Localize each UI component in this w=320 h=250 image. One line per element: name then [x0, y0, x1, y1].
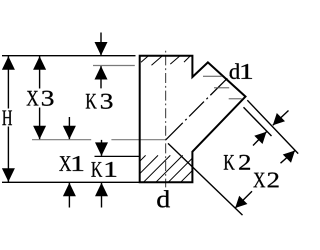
label X1: [59, 156, 83, 171]
label X2: [253, 173, 278, 188]
bottom hatch 3: [143, 155, 170, 182]
top hatch s2: [152, 56, 163, 65]
arrow K2 upper: [273, 113, 285, 125]
mouth tick t3: [229, 98, 242, 100]
dimension K3 lines: [100, 33, 102, 89]
K1 reference line: [95, 155, 141, 157]
mouth tick t2: [214, 87, 229, 89]
label K3: [86, 94, 113, 109]
arrow X2 lower: [235, 196, 247, 208]
bottom hatch 2: [140, 155, 158, 173]
bottom hatch 5: [168, 158, 192, 182]
extension line P1 rim: [247, 100, 298, 153]
mouth tick t1: [203, 75, 222, 77]
arrow X1 top: [63, 126, 76, 140]
arrow K1 bottom: [95, 183, 108, 197]
dimension K1 lines: [101, 140, 103, 208]
bottom hatch 6: [181, 171, 193, 183]
top hatch s3: [170, 56, 180, 64]
arrow H bottom: [2, 168, 15, 182]
arrow X2 upper: [283, 151, 295, 163]
arrow X3 bottom: [33, 126, 46, 140]
dimension X2 line: [235, 151, 295, 209]
gray K3 reference line: [93, 65, 135, 67]
arrow H top: [2, 56, 15, 69]
label d: [157, 190, 170, 207]
label d1: [230, 63, 252, 79]
bottom hatch 4: [156, 155, 183, 182]
arrow K2 lower: [254, 132, 266, 144]
extension line B center: [168, 143, 243, 215]
top reference line: [2, 55, 136, 57]
bottom hatch 1: [140, 155, 146, 161]
dimension H line: [7, 56, 9, 183]
main centerline: [165, 51, 167, 188]
label X3: [27, 91, 54, 106]
arrow X1 bottom: [63, 183, 76, 197]
dimension X3 line: [39, 56, 41, 140]
body outline: [140, 56, 246, 183]
bottom reference line: [2, 181, 140, 183]
arrow K1 top: [95, 142, 108, 156]
dimension X1 lines: [68, 117, 70, 208]
arrow X3 top: [33, 56, 46, 69]
arrow K3 bottom: [95, 66, 108, 80]
gray X reference line: [32, 139, 166, 141]
arrow K3 top: [95, 42, 108, 56]
branch axis centerline: [166, 75, 231, 140]
label K1: [91, 162, 116, 177]
dimension K2 line: [253, 111, 289, 146]
label H: [2, 111, 12, 126]
extension line P2 depth: [244, 107, 272, 136]
label K2: [224, 155, 250, 170]
top hatch s1: [141, 56, 148, 62]
top hatch s4: [184, 56, 190, 62]
